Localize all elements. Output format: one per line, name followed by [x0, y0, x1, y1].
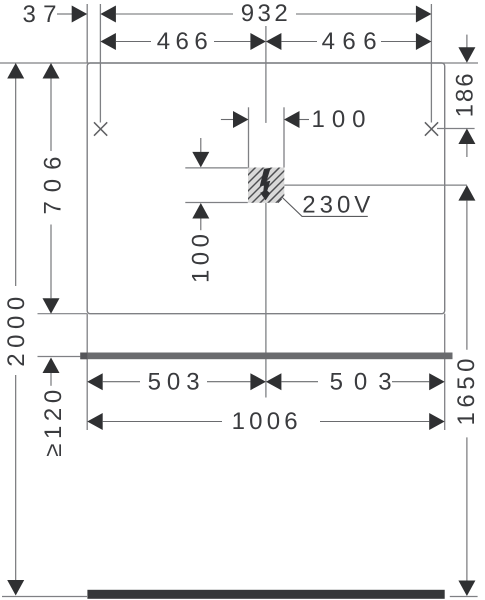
node floor line right	[450, 596, 478, 598]
dim 503 left	[87, 368, 266, 395]
wire cable zone line left x=248.5	[248, 107, 250, 167]
dim 706 left	[39, 63, 66, 314]
label 230V with leader	[277, 192, 370, 219]
svg-text:1650: 1650	[453, 359, 480, 426]
wire centerline upper segment	[265, 26, 267, 123]
node floor dark bar	[87, 590, 444, 599]
wire left edge extended below box to 1006 row	[86, 314, 88, 430]
wire left extension line x=87 above box	[86, 4, 88, 63]
node lightning bolt symbol	[260, 168, 271, 201]
dim 1650 right	[453, 185, 480, 596]
node floor line left	[2, 596, 87, 598]
svg-text:≥120: ≥120	[40, 390, 67, 457]
wire tick at gray bar level y=356.5	[38, 356, 81, 358]
node mirror outline box 1006x706	[87, 63, 445, 314]
dim 1006	[87, 408, 445, 435]
dim >=120 left	[40, 358, 67, 457]
wire right hole line x=431.4	[430, 4, 432, 123]
node electrical box hatched	[238, 153, 334, 213]
wire right edge extended below box	[444, 314, 446, 430]
svg-text:100: 100	[188, 234, 215, 283]
wire tick at electrical box top y=168	[185, 167, 248, 169]
dim 37 arrow and text	[23, 1, 88, 28]
svg-text:503: 503	[330, 368, 392, 395]
svg-text:503: 503	[148, 368, 200, 395]
svg-text:466: 466	[157, 28, 208, 55]
dim 100 vertical (box offset)	[188, 138, 215, 283]
svg-text:932: 932	[241, 0, 288, 27]
node shelf gray bar	[80, 353, 452, 360]
svg-text:1006: 1006	[232, 408, 298, 435]
dim 932	[100, 0, 431, 27]
dim 186 right	[452, 35, 479, 157]
dim 100 horizontal (cable zone)	[221, 106, 366, 133]
svg-text:706: 706	[39, 157, 66, 215]
node X drill mark right	[425, 122, 438, 135]
svg-text:37: 37	[23, 1, 57, 28]
dim 503 right	[266, 368, 445, 395]
svg-text:2000: 2000	[3, 297, 30, 367]
dim 2000 left	[3, 63, 30, 596]
node X drill mark left	[94, 122, 107, 135]
svg-text:466: 466	[322, 28, 377, 55]
wire tick at electrical box bottom y=202.5	[185, 202, 248, 204]
wire left hole line x=100.4	[99, 4, 101, 123]
node shelf bar dark left cap	[80, 353, 87, 360]
wire tick left of box bottom for 706 dim	[38, 313, 88, 315]
svg-text:230V: 230V	[302, 192, 370, 219]
wire tick at hole level right side y=128.5	[437, 128, 475, 130]
wire top reference line y=63	[0, 62, 478, 64]
dim 466 right	[266, 28, 432, 55]
svg-text:100: 100	[312, 106, 366, 133]
wire line from box right to 1650 dim at y=185.1	[284, 184, 467, 186]
wire cable zone line right x=284	[283, 107, 285, 167]
svg-text:186: 186	[452, 73, 479, 117]
wire centerline lower segment	[265, 203, 267, 398]
dim 466 left	[100, 28, 266, 55]
